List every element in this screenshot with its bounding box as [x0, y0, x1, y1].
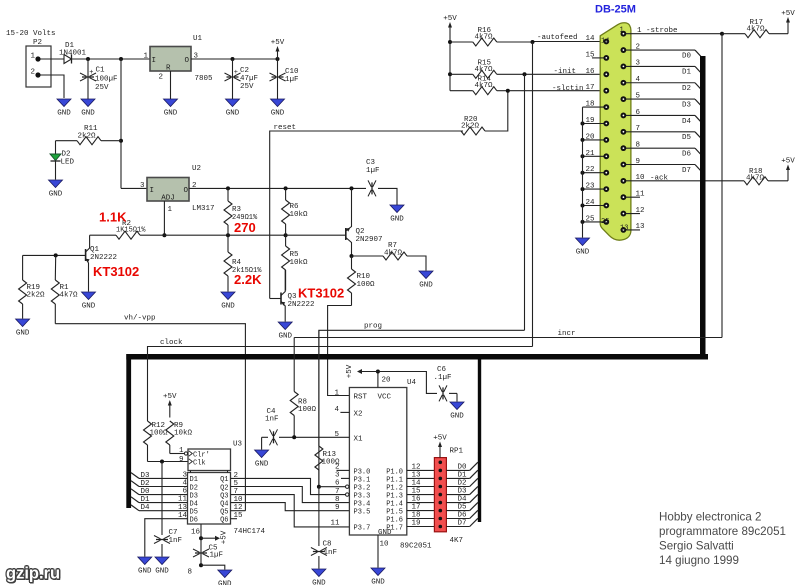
svg-text:.1µF: .1µF: [434, 374, 452, 382]
svg-text:D2: D2: [141, 480, 150, 488]
svg-text:Q3: Q3: [220, 492, 228, 500]
resistor R14 4k7 slctin pullup: [450, 76, 508, 95]
svg-text:3: 3: [182, 472, 187, 480]
svg-text:GND: GND: [371, 579, 385, 585]
svg-text:4k7Ω: 4k7Ω: [60, 292, 79, 300]
resistor R10 100ohm: [348, 256, 376, 306]
resistor R9 10k: [166, 421, 193, 454]
svg-text:P3.1: P3.1: [354, 476, 371, 484]
wire D2 from DB25 pin 4: [623, 76, 702, 93]
svg-text:17: 17: [412, 504, 421, 512]
ground for C6: [450, 402, 464, 410]
data bus thick bar right of DB25: [700, 56, 706, 360]
svg-text:D3: D3: [682, 101, 692, 109]
svg-text:1: 1: [179, 447, 184, 455]
svg-text:P3.7: P3.7: [354, 524, 371, 532]
svg-text:GND: GND: [450, 413, 464, 421]
svg-text:ADJ: ADJ: [161, 195, 175, 203]
svg-text:1µF: 1µF: [366, 167, 380, 175]
svg-text:GND: GND: [218, 581, 232, 585]
net incr wire: [294, 330, 722, 338]
svg-text:P1.1: P1.1: [386, 476, 403, 484]
U4 pin labels RST X2 X1: [334, 389, 349, 439]
capacitor C4 1nF on X1: [262, 408, 350, 450]
svg-text:incr: incr: [558, 330, 576, 338]
capacitor C8 1nF on P3.2: [311, 487, 337, 569]
ground for U3 pin8: [218, 570, 232, 578]
resistor R8 100ohm on incr to X1: [290, 338, 316, 438]
svg-text:U2: U2: [192, 165, 201, 173]
wire U3 Q2 to U4 P3.4: [231, 487, 350, 503]
wire U1 output rail: [191, 58, 278, 60]
svg-text:14 giugno 1999: 14 giugno 1999: [659, 554, 739, 567]
svg-text:Q1: Q1: [90, 246, 100, 254]
svg-text:C6: C6: [437, 366, 447, 374]
svg-text:R5: R5: [290, 251, 300, 259]
svg-text:programmatore 89c2051: programmatore 89c2051: [659, 525, 786, 538]
svg-text:GND: GND: [278, 333, 292, 341]
svg-text:1: 1: [334, 389, 339, 397]
svg-text:C3: C3: [366, 159, 376, 167]
svg-text:R6: R6: [290, 203, 300, 211]
resistor R19 2k2: [19, 255, 45, 318]
svg-text:C7: C7: [169, 529, 178, 537]
svg-text:4k7Ω: 4k7Ω: [475, 82, 494, 90]
LED D2: [50, 141, 75, 180]
net -init wire to pin16: [523, 68, 607, 76]
+5V supply for pullups R14 R15 R16: [449, 25, 451, 42]
resistor R5 10k: [282, 235, 308, 290]
wire D6 from DB25 pin 8: [623, 141, 702, 158]
svg-text:1: 1: [620, 27, 624, 35]
svg-text:11: 11: [330, 520, 340, 528]
U4 P1 port wires to RP1: [386, 463, 434, 532]
svg-text:2: 2: [30, 69, 35, 77]
svg-text:Q5: Q5: [220, 508, 228, 516]
wire U3 Q1 to U4 P3.3: [231, 478, 346, 494]
cable bus left vertical thick bar: [126, 354, 131, 508]
wire R10 to U4 RST: [328, 306, 352, 396]
ground for R7: [419, 271, 433, 279]
+5V supply at R18: [787, 168, 789, 181]
svg-text:I: I: [152, 57, 157, 65]
svg-text:10kΩ: 10kΩ: [290, 259, 309, 267]
capacitor C1 100uF 25V: [80, 59, 118, 99]
svg-text:D3: D3: [190, 492, 198, 500]
svg-text:KT3102: KT3102: [93, 264, 139, 279]
wire R3R4 node to R6R5 node: [228, 234, 286, 236]
svg-text:9: 9: [179, 456, 184, 464]
svg-text:1K15Ω1%: 1K15Ω1%: [116, 227, 146, 235]
gzip.ru watermark: [5, 563, 62, 584]
svg-text:D7: D7: [457, 520, 466, 528]
svg-text:14: 14: [412, 480, 422, 488]
resistor R12 100ohm: [144, 421, 169, 462]
svg-text:D7: D7: [682, 167, 691, 175]
ground for R4: [221, 292, 235, 300]
svg-text:2N2222: 2N2222: [90, 254, 117, 262]
svg-text:RP1: RP1: [450, 448, 464, 456]
svg-text:+5V: +5V: [781, 158, 795, 166]
svg-text:17: 17: [586, 84, 595, 92]
svg-text:16: 16: [412, 496, 422, 504]
wire U3 Q4 to U4 P3.5: [231, 503, 350, 511]
resistor R17 4k7 strobe pullup: [722, 19, 788, 38]
data bus thick bar at RP1: [478, 354, 481, 522]
svg-text:GND: GND: [255, 461, 269, 469]
svg-text:P3.3: P3.3: [354, 493, 371, 501]
capacitor C10 1uF: [270, 59, 300, 99]
capacitor C7 1nF on clock: [154, 462, 182, 557]
U4 P3 port labels and stubs: [330, 464, 370, 533]
svg-text:GND: GND: [419, 282, 433, 290]
ground for DB25: [576, 238, 590, 246]
svg-text:1nF: 1nF: [169, 537, 183, 545]
svg-text:4: 4: [182, 480, 187, 488]
wire U1 pin2 to ground: [170, 71, 172, 99]
connector P2 input 15-20 Volts: [6, 30, 56, 87]
wire P2 pin1 to D1: [41, 58, 65, 60]
svg-text:P1.0: P1.0: [386, 468, 403, 476]
svg-text:D6: D6: [682, 150, 692, 158]
svg-text:P1.2: P1.2: [386, 484, 403, 492]
svg-text:GND: GND: [164, 110, 178, 118]
wire -autofeed to clock vertical: [532, 42, 534, 347]
svg-text:6: 6: [182, 488, 187, 496]
svg-text:8: 8: [335, 496, 340, 504]
transistor Q1 2N2222: [23, 235, 117, 291]
ground for D6 wire: [138, 557, 152, 565]
svg-text:14: 14: [601, 38, 609, 46]
svg-text:14: 14: [586, 35, 596, 43]
wire U3 Q5 to vh vertical: [231, 510, 246, 512]
connector DB-25M body: [600, 23, 631, 240]
left pin stubs DB25 pins 14-25: [581, 35, 607, 224]
svg-text:GND: GND: [49, 191, 63, 199]
regulator U2 LM317: [147, 165, 215, 214]
svg-text:10: 10: [380, 541, 390, 549]
svg-text:GND: GND: [57, 110, 71, 118]
svg-text:15-20 Volts: 15-20 Volts: [6, 30, 56, 38]
svg-text:10kΩ: 10kΩ: [174, 430, 193, 438]
svg-text:D2: D2: [457, 480, 466, 488]
resistor R4 2k15 1%: [224, 235, 262, 291]
svg-text:19: 19: [412, 520, 421, 528]
wire D1 to U1 input, node with C1: [88, 58, 150, 60]
svg-text:1N4001: 1N4001: [59, 50, 87, 58]
wire D1 from DB25 pin 3: [623, 60, 702, 77]
svg-text:4k7Ω: 4k7Ω: [384, 250, 403, 258]
ground for U4: [371, 568, 385, 576]
svg-text:D2: D2: [190, 484, 198, 492]
svg-text:P1.5: P1.5: [386, 509, 403, 517]
title block text: [659, 511, 786, 568]
svg-text:I: I: [150, 187, 155, 195]
svg-text:4K7: 4K7: [450, 537, 464, 545]
svg-text:P1.6: P1.6: [386, 516, 403, 524]
diode D1 1N4001: [59, 42, 88, 64]
svg-text:Q2: Q2: [220, 484, 228, 492]
open-drain circles pins 6 and 7: [346, 485, 349, 488]
svg-text:+5V: +5V: [163, 393, 177, 401]
net clock wire: [148, 339, 533, 421]
svg-text:6: 6: [335, 480, 340, 488]
svg-text:D6: D6: [457, 512, 467, 520]
data breakout wires D3 D2 D0 D1 D4 from cable bus to U3: [131, 472, 188, 520]
svg-text:11: 11: [178, 496, 188, 504]
wire D3 from DB25 pin 5: [623, 92, 702, 109]
resistor R3 249ohm 1%: [224, 188, 258, 235]
IC U3 74HC174 body: [184, 441, 265, 537]
transistor Q2 2N2907: [286, 188, 383, 256]
net vh/-vpp wire: [55, 315, 245, 511]
svg-text:D6: D6: [190, 517, 198, 525]
svg-text:4k7Ω: 4k7Ω: [475, 34, 494, 42]
wire incr vertical from -strobe: [721, 34, 723, 338]
resistor R16 4k7 autofeed pullup: [450, 27, 533, 46]
ground for R19: [16, 319, 30, 327]
resistor R11 2k2: [56, 125, 122, 145]
svg-text:13: 13: [412, 471, 422, 479]
wire D7 from DB25 pin 9: [623, 158, 702, 175]
svg-text:U1: U1: [193, 35, 203, 43]
wire R12 to U3 Clk pin9: [148, 456, 188, 464]
svg-text:Q1: Q1: [220, 476, 228, 484]
svg-text:RST: RST: [354, 393, 368, 401]
svg-text:D1: D1: [682, 69, 692, 77]
svg-text:74HC174: 74HC174: [234, 528, 266, 536]
svg-text:D3: D3: [141, 472, 151, 480]
wire ground bus pins 18-25: [582, 107, 584, 237]
svg-text:GND: GND: [82, 303, 96, 311]
wire R9 to U3 Clr pin1: [170, 447, 185, 455]
svg-text:P3.4: P3.4: [354, 501, 371, 509]
svg-text:13: 13: [178, 504, 188, 512]
svg-text:X1: X1: [354, 435, 364, 443]
svg-text:C2: C2: [240, 67, 249, 75]
net reset wire with R20: [270, 124, 463, 299]
svg-text:18: 18: [412, 512, 421, 520]
RP1 data wires to bus: [446, 462, 478, 527]
svg-text:GND: GND: [312, 580, 326, 585]
wire into U2 pin3: [121, 187, 147, 189]
IC U4 89C2051 body: [349, 379, 432, 551]
net -slctin wire to pin17: [506, 85, 607, 93]
svg-text:vh/-vpp: vh/-vpp: [124, 315, 156, 323]
svg-text:Sergio Salvatti: Sergio Salvatti: [659, 540, 734, 553]
wire -strobe from pin1: [623, 27, 724, 36]
wire P2 pin2 to ground: [41, 75, 65, 98]
svg-text:C10: C10: [285, 68, 299, 76]
svg-text:-autofeed: -autofeed: [537, 34, 578, 42]
svg-text:D0: D0: [141, 488, 151, 496]
svg-text:Clr': Clr': [193, 451, 210, 459]
svg-text:C8: C8: [323, 541, 332, 549]
svg-text:100Ω: 100Ω: [150, 430, 169, 438]
svg-text:D4: D4: [457, 496, 467, 504]
svg-text:P3.5: P3.5: [354, 509, 371, 517]
svg-text:GND: GND: [271, 110, 285, 118]
svg-text:2: 2: [158, 74, 163, 82]
svg-text:D0: D0: [682, 52, 692, 60]
svg-text:P1.7: P1.7: [386, 524, 403, 532]
resistor R7 4k7: [352, 242, 427, 271]
svg-text:D4: D4: [190, 500, 198, 508]
svg-text:4k7Ω: 4k7Ω: [747, 26, 766, 34]
svg-text:gzip.ru: gzip.ru: [6, 565, 60, 583]
ground for D2: [49, 180, 63, 188]
node P3.2 junction: [317, 485, 321, 489]
ground for Q3: [278, 322, 292, 330]
svg-text:R4: R4: [232, 259, 242, 267]
svg-text:GND: GND: [155, 568, 169, 576]
svg-text:+5V: +5V: [433, 435, 447, 443]
svg-text:1µF: 1µF: [285, 76, 299, 84]
svg-text:-slctin: -slctin: [552, 85, 584, 93]
svg-text:D0: D0: [457, 463, 467, 471]
wire U2 output rail vh: [189, 187, 366, 189]
svg-text:P1.4: P1.4: [386, 501, 403, 509]
svg-text:2k2Ω: 2k2Ω: [78, 133, 97, 141]
svg-text:O: O: [184, 187, 189, 195]
capacitor C3 1uF: [366, 159, 397, 205]
wire U4 pin10 ground: [378, 535, 389, 568]
net -autofeed wire to pin14: [531, 34, 607, 44]
svg-text:X2: X2: [354, 410, 363, 418]
svg-text:25V: 25V: [240, 83, 254, 91]
node Q2 emitter R7 R10: [350, 254, 354, 258]
cable bus horizontal thick bar: [126, 354, 708, 360]
svg-text:clock: clock: [160, 339, 183, 347]
svg-text:O: O: [185, 57, 190, 65]
svg-text:Q2: Q2: [356, 228, 365, 236]
svg-text:GND: GND: [138, 568, 152, 576]
stub U3 Q6 pin15: [231, 518, 238, 520]
wire node to U4 P3.2 pin6: [319, 486, 346, 488]
svg-text:GND: GND: [81, 110, 95, 118]
wire -ack from pin10: [623, 174, 744, 182]
svg-text:LM317: LM317: [192, 205, 215, 213]
DB25 pin holes: [601, 27, 628, 233]
ground for C1: [81, 99, 95, 107]
svg-text:U3: U3: [233, 441, 243, 449]
svg-text:1.1K: 1.1K: [99, 210, 127, 225]
resistor R18 4k7 ack pullup: [744, 168, 788, 185]
svg-text:20: 20: [382, 377, 392, 385]
svg-text:7: 7: [335, 488, 340, 496]
ground for C4: [255, 450, 269, 458]
ground for C3: [390, 205, 404, 213]
svg-text:LED: LED: [61, 159, 75, 167]
wire D5 from DB25 pin 7: [623, 125, 702, 142]
svg-text:100Ω: 100Ω: [357, 281, 376, 289]
svg-text:KT3102: KT3102: [298, 286, 344, 301]
svg-text:2N2907: 2N2907: [356, 236, 383, 244]
wire -init to prog vertical: [524, 74, 526, 330]
pin 11 stub DB25: [623, 191, 645, 199]
transistor Q3 2N2222: [270, 270, 315, 322]
ground for C8: [312, 569, 326, 577]
svg-text:C1: C1: [96, 67, 106, 75]
svg-text:1: 1: [143, 53, 148, 61]
wire D4 from DB25 pin 6: [623, 109, 702, 126]
ground for C10: [271, 99, 285, 107]
svg-text:4k7Ω: 4k7Ω: [475, 66, 494, 74]
svg-text:4k7Ω: 4k7Ω: [746, 175, 765, 183]
wire U3 Q3 to U4 P3.7: [231, 495, 350, 527]
svg-text:D2: D2: [62, 151, 71, 159]
svg-text:+5V: +5V: [221, 530, 229, 544]
svg-text:D1: D1: [457, 471, 467, 479]
svg-text:GND: GND: [221, 303, 235, 311]
svg-text:9: 9: [335, 504, 340, 512]
pin 12 stub DB25: [623, 207, 644, 215]
svg-text:13: 13: [620, 225, 628, 233]
svg-text:89C2051: 89C2051: [400, 543, 432, 551]
svg-text:10kΩ: 10kΩ: [290, 211, 309, 219]
resistor R13 100ohm prog to P3.2: [315, 330, 340, 486]
svg-text:270: 270: [234, 220, 256, 235]
wire U3 pin16 +5V and pin8 ground: [187, 524, 228, 577]
svg-text:16: 16: [586, 68, 596, 76]
svg-text:D1: D1: [141, 496, 151, 504]
svg-text:R10: R10: [357, 273, 371, 281]
ground for C7: [155, 557, 169, 565]
svg-text:+5V: +5V: [443, 15, 457, 23]
svg-text:prog: prog: [364, 323, 382, 331]
svg-text:3: 3: [140, 182, 145, 190]
+5V supply at R9: [169, 403, 171, 418]
svg-text:8: 8: [187, 569, 192, 577]
svg-text:+5V: +5V: [346, 364, 354, 378]
wire D0 from DB25 pin 2: [623, 43, 702, 60]
resistor R2 1K15 1% with ADJ node: [90, 220, 228, 239]
svg-text:D1: D1: [190, 476, 198, 484]
svg-text:2N2222: 2N2222: [288, 301, 315, 309]
capacitor C6 .1uF on VCC: [378, 366, 457, 402]
ground for U1: [164, 99, 178, 107]
svg-text:GND: GND: [390, 216, 404, 224]
wire node to U2 input vertical: [120, 59, 122, 188]
ground for P2 pin2: [57, 99, 71, 107]
svg-text:DB-25M: DB-25M: [595, 4, 636, 16]
svg-text:P1.3: P1.3: [386, 493, 403, 501]
svg-text:Q6: Q6: [220, 517, 228, 525]
svg-text:Q4: Q4: [220, 500, 228, 508]
svg-text:1nF: 1nF: [265, 416, 279, 424]
pin 13 stub DB25: [623, 223, 645, 231]
svg-text:3: 3: [335, 472, 340, 480]
ground for Q1: [82, 292, 96, 300]
net prog wire: [319, 323, 525, 487]
resistor R15 4k7 init pullup: [450, 59, 525, 78]
svg-text:U4: U4: [407, 379, 417, 387]
resistor R20 2k2: [461, 91, 508, 135]
svg-text:15: 15: [412, 488, 422, 496]
+5V supply at RP1: [439, 445, 441, 458]
svg-text:D5: D5: [457, 504, 467, 512]
svg-text:D4: D4: [141, 504, 151, 512]
svg-text:D4: D4: [682, 118, 692, 126]
wire U3 pin14 D6 to ground: [145, 519, 188, 557]
+5V supply arrow at C10: [277, 49, 279, 59]
capacitor C2 47uF 25V: [225, 59, 259, 99]
wire U4 VCC pin20 +5V: [346, 364, 391, 387]
svg-text:100µF: 100µF: [95, 76, 118, 84]
svg-text:47µF: 47µF: [240, 75, 258, 83]
svg-text:D5: D5: [682, 134, 692, 142]
svg-text:25: 25: [601, 218, 609, 226]
